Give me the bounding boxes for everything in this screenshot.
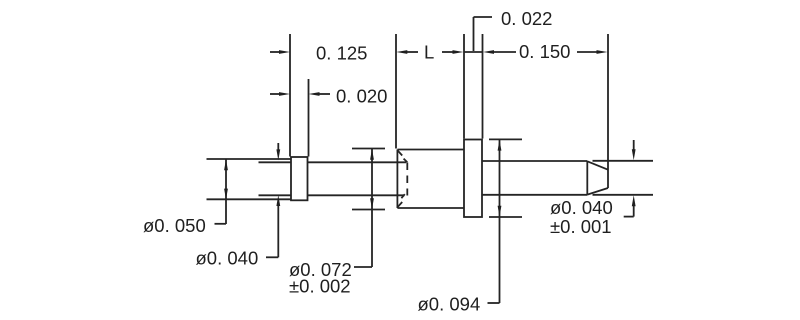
- extension line barrel entry face: [395, 34, 397, 149]
- right tail pin bottom outline: [482, 194, 587, 196]
- shaft top outline (collar to barrel, into bore): [308, 161, 407, 163]
- svg-text:ø0. 050: ø0. 050: [143, 215, 206, 236]
- arrowhead 0.020 right: [309, 92, 320, 96]
- extension line collar left edge: [289, 34, 291, 157]
- arrowhead 0.040 left up: [276, 195, 280, 206]
- barrel top outline: [397, 149, 464, 151]
- flange (0.094 OD): [464, 140, 482, 218]
- arrowhead 0.125 left: [279, 50, 290, 54]
- collar (0.050 OD shoulder): [291, 157, 308, 200]
- 0.150 right extension line merging into tip end face: [607, 34, 609, 188]
- arrowhead 0.072 up: [370, 149, 374, 160]
- arrowhead 0.040 right up: [632, 195, 636, 206]
- arrowhead 0.094 down: [498, 206, 502, 217]
- dim 0.020 right arrow shaft: [319, 93, 330, 95]
- arrowhead 0.094 up: [498, 140, 502, 151]
- extension line collar OD bottom (left): [207, 198, 292, 200]
- dim 0.150 left arrow shaft: [494, 51, 517, 53]
- dim 0.125 right arrow shaft / L left arrow: [407, 51, 418, 53]
- dim 0.150 right arrow shaft: [577, 51, 597, 53]
- dim 0.072 extension line top: [352, 148, 385, 150]
- arrowhead 0.125 right / L left: [396, 50, 407, 54]
- arrowhead 0.020 left: [279, 92, 290, 96]
- arrowhead 0.072 down: [370, 198, 374, 209]
- barrel bottom outline: [397, 207, 464, 209]
- tip chamfer bottom slant: [587, 188, 608, 195]
- barrel corner chamfer top: [397, 150, 402, 155]
- arrowhead 0.040 left down: [276, 149, 280, 160]
- right tail pin top outline: [482, 160, 587, 162]
- arrowhead 0.150 right: [597, 50, 608, 54]
- barrel corner chamfer bottom: [397, 202, 402, 207]
- dim 0.050 dimension line: [225, 160, 227, 225]
- hidden bore chamfer dash bottom: [401, 194, 404, 198]
- leader 0.040 right foot: [624, 216, 634, 218]
- dim 0.040 right top arrow shaft: [633, 140, 635, 150]
- dim 0.072 dimension line with tail: [371, 149, 373, 268]
- dim 0.040 right bottom arrow shaft: [633, 206, 635, 217]
- svg-text:ø0. 040: ø0. 040: [196, 248, 259, 269]
- extension line flange left edge: [463, 34, 465, 139]
- leader 0.050: [215, 223, 227, 225]
- svg-text:0. 020: 0. 020: [336, 85, 387, 106]
- arrowhead 0.150 left: [483, 50, 494, 54]
- dim 0.072 extension line bottom: [352, 209, 385, 211]
- svg-text:0. 022: 0. 022: [501, 8, 552, 29]
- dim 0.094 extension line bottom: [489, 216, 522, 218]
- leader 0.072: [354, 266, 372, 268]
- svg-text:0. 150: 0. 150: [519, 41, 570, 62]
- arrowhead L right: [453, 50, 464, 54]
- extension line collar right edge: [308, 79, 310, 157]
- dim 0.022 bridge line between extension lines: [465, 51, 483, 53]
- dim 0.094 extension line top: [489, 138, 522, 140]
- hidden bore chamfer dash top: [404, 159, 408, 163]
- extension line right tail bottom: [593, 194, 654, 196]
- barrel entry face: [396, 150, 398, 209]
- tip chamfer top slant: [587, 161, 608, 169]
- dim L right arrow shaft: [442, 51, 453, 53]
- arrowhead 0.040 right down: [632, 149, 636, 160]
- dim 0.020 left arrow shaft: [270, 93, 280, 95]
- dim 0.125 left arrow shaft: [270, 51, 280, 53]
- dim 0.094 dimension line with tail: [499, 139, 501, 303]
- left tail pin bottom outline: [259, 194, 292, 196]
- leader 0.094: [488, 302, 500, 304]
- shaft bottom outline (collar to barrel, into bore): [308, 194, 405, 196]
- arrowhead 0.050 down: [224, 189, 228, 200]
- hidden bore end (dashed): [406, 163, 408, 196]
- extension line collar OD top (left): [207, 158, 292, 160]
- leader 0.040 left: [266, 256, 278, 258]
- tip chamfer start line: [586, 161, 588, 195]
- arrowhead 0.050 up: [224, 159, 228, 170]
- left tail pin top outline: [259, 161, 292, 163]
- svg-text:ø0. 094: ø0. 094: [418, 294, 481, 315]
- svg-text:±0. 002: ±0. 002: [289, 276, 351, 297]
- svg-text:L: L: [424, 42, 434, 63]
- svg-text:±0. 001: ±0. 001: [550, 216, 612, 237]
- dim 0.040 left bottom arrow shaft and leader riser: [277, 206, 279, 258]
- extension line flange right edge: [482, 34, 484, 139]
- svg-text:0. 125: 0. 125: [316, 42, 367, 63]
- extension line right tail top: [593, 160, 654, 162]
- dim 0.040 left top arrow shaft: [277, 143, 279, 150]
- leader 0.022: [474, 17, 493, 51]
